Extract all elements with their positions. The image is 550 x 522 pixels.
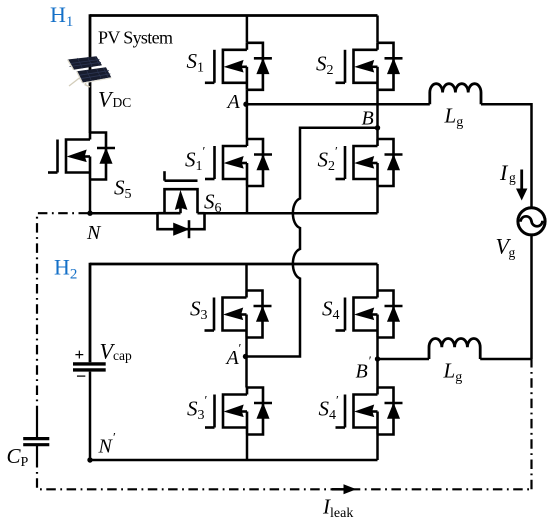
wire H2 top rail — [90, 263, 378, 266]
svg-text:S3′: S3′ — [187, 393, 208, 424]
node B' — [375, 356, 380, 361]
wire S3 source to A' — [245, 338, 248, 388]
wire node A to Lg1 — [247, 103, 430, 106]
svg-text:cap: cap — [113, 348, 132, 363]
svg-text:DC: DC — [113, 95, 132, 110]
wire S1 source to S1' drain — [246, 90, 249, 139]
svg-text:′: ′ — [239, 341, 242, 356]
wire N to S6 — [90, 212, 158, 215]
transistor S3 — [205, 291, 272, 338]
wire Lg1 to right corner — [481, 104, 532, 169]
inductor Lg2 — [429, 338, 480, 359]
svg-text:g: g — [509, 170, 516, 185]
node A' — [243, 354, 248, 359]
capacitor CP — [23, 413, 49, 458]
svg-text:+: + — [75, 345, 85, 364]
wire link B down with hops — [247, 127, 301, 357]
svg-text:N: N — [86, 222, 102, 244]
wire H2 left down to Vcap — [89, 263, 92, 363]
wire S1 drain — [246, 16, 249, 43]
wire Vg top — [530, 169, 533, 207]
I_leak arrow — [332, 488, 345, 491]
transistor S4' — [336, 388, 403, 435]
wire S3 drain — [245, 264, 248, 291]
transistor S2 — [336, 43, 403, 90]
transistor S6 — [158, 171, 205, 238]
svg-text:−: − — [76, 366, 86, 386]
wire B' to Lg2 — [378, 358, 430, 361]
svg-text:A: A — [225, 347, 240, 369]
transistor S3' — [205, 388, 272, 435]
wire H1 bottom rail — [205, 212, 378, 215]
wire top rail H1 — [90, 14, 378, 17]
transistor S5 — [48, 133, 115, 180]
source Vg — [518, 208, 545, 235]
inductor Lg1 — [430, 84, 481, 105]
node N — [87, 211, 92, 216]
wire Vg bottom — [530, 236, 533, 360]
wire node B to link — [300, 127, 378, 130]
svg-text:S2′: S2′ — [318, 144, 339, 175]
leakage dash-dot path — [37, 213, 532, 489]
wire Lg2 to right — [480, 358, 531, 361]
node B — [375, 125, 380, 130]
transistor S2' — [336, 139, 403, 186]
svg-text:A: A — [226, 91, 241, 113]
transistor S1' — [205, 139, 272, 186]
wire S4 source through B' to S4' drain — [376, 338, 379, 388]
capacitor Vcap — [73, 364, 106, 460]
transistor S4 — [336, 291, 403, 338]
svg-text:′: ′ — [369, 353, 372, 368]
wire S2 source through B to S2' drain — [376, 90, 379, 139]
wire left branch PV — [89, 14, 92, 133]
svg-text:B: B — [362, 108, 374, 130]
svg-text:B: B — [356, 361, 368, 383]
svg-text:S1′: S1′ — [185, 144, 206, 175]
svg-text:′: ′ — [113, 430, 116, 445]
wire S3' source to N' rail — [246, 435, 249, 461]
svg-text:N: N — [98, 436, 114, 458]
wire S4 drain — [376, 264, 379, 291]
wire S5 source to N — [89, 180, 92, 214]
node N' — [87, 457, 92, 462]
svg-text:S4′: S4′ — [319, 393, 340, 424]
wire S1' source to rail — [246, 186, 249, 213]
wire S2' source to rail — [376, 186, 379, 213]
PV panel icon — [68, 56, 112, 87]
wire S2 drain — [376, 16, 379, 43]
transistor S1 — [205, 43, 272, 90]
svg-text:g: g — [509, 245, 516, 260]
Ig arrow — [520, 170, 523, 192]
node A — [243, 102, 248, 107]
svg-text:PV System: PV System — [98, 28, 173, 48]
wire S4' source to N' rail — [376, 435, 379, 461]
wire N' bottom rail — [90, 459, 378, 462]
